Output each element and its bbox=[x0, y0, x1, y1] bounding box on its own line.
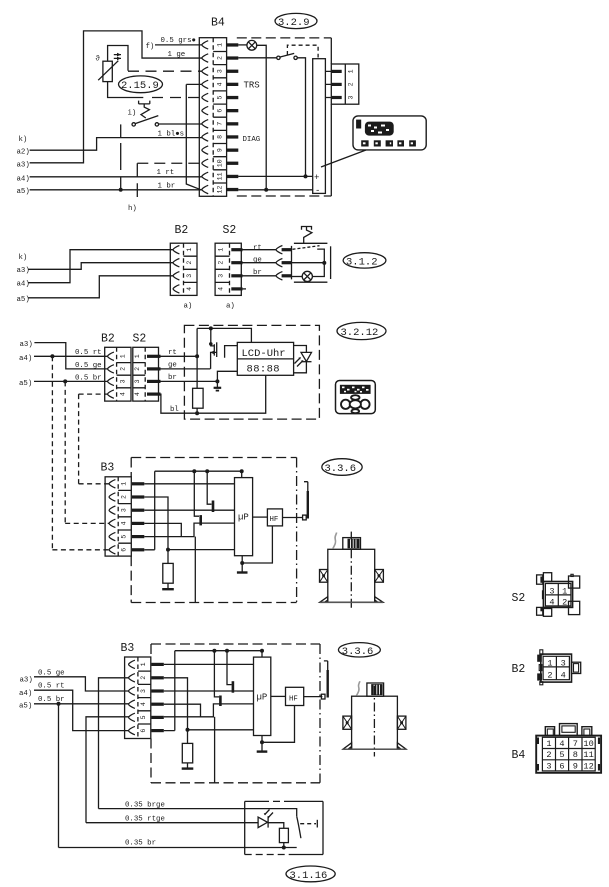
S2 connector body bbox=[215, 243, 241, 295]
B4 connector body bbox=[199, 38, 226, 197]
svg-text:a3): a3) bbox=[17, 267, 30, 275]
svg-text:k): k) bbox=[19, 254, 28, 262]
B4 pin numbers 1-12 bbox=[217, 43, 224, 194]
svg-text:a3): a3) bbox=[20, 676, 33, 684]
B3 connector body bbox=[125, 657, 151, 739]
B2 numbers bbox=[186, 248, 193, 291]
svg-text:1: 1 bbox=[218, 248, 225, 252]
svg-text:0.5 grs●: 0.5 grs● bbox=[161, 37, 196, 45]
svg-text:B3: B3 bbox=[101, 462, 115, 475]
svg-text:i): i) bbox=[128, 110, 137, 118]
HF module 2 bbox=[286, 687, 304, 705]
antenna 2 bbox=[327, 670, 329, 698]
svg-text:rt: rt bbox=[253, 245, 262, 253]
transistor Q (FET) bbox=[211, 328, 215, 346]
svg-text:4: 4 bbox=[140, 702, 147, 706]
receiver dashed box 2 bbox=[150, 644, 152, 783]
svg-text:HF: HF bbox=[270, 516, 279, 524]
S2 male pins bbox=[147, 355, 161, 396]
thermistor R (NTC) bbox=[103, 61, 112, 81]
svg-text:1: 1 bbox=[348, 69, 355, 73]
svg-text:a): a) bbox=[184, 303, 193, 311]
svg-text:a5): a5) bbox=[17, 296, 30, 304]
wire dashed to pin 5 bbox=[152, 97, 202, 99]
wire a3 to B2.2 bbox=[28, 263, 173, 270]
lamp unit box bbox=[245, 801, 323, 854]
svg-text:9: 9 bbox=[217, 148, 224, 152]
B2 connector body bbox=[105, 347, 131, 401]
svg-text:9: 9 bbox=[573, 761, 578, 771]
svg-text:2: 2 bbox=[547, 671, 552, 681]
thermistor top lead to pin 3 node bbox=[108, 46, 128, 71]
dashed wire to B3.1 bbox=[79, 483, 110, 485]
svg-text:0.5 ge: 0.5 ge bbox=[38, 669, 65, 677]
svg-text:B4: B4 bbox=[512, 749, 526, 762]
svg-text:S2: S2 bbox=[512, 592, 526, 605]
svg-text:6: 6 bbox=[559, 761, 564, 771]
svg-text:3: 3 bbox=[546, 761, 551, 771]
svg-text:0.35 rtge: 0.35 rtge bbox=[125, 815, 165, 823]
S2 male pins bbox=[231, 248, 242, 290]
B3 connector body bbox=[105, 477, 131, 556]
svg-text:0.35 br: 0.35 br bbox=[125, 840, 156, 848]
svg-text:B2: B2 bbox=[101, 333, 115, 346]
B3 numbers bbox=[140, 662, 147, 732]
B2 socket contacts bbox=[173, 246, 179, 254]
LCD-Uhr box bbox=[237, 342, 293, 375]
S2 connector face bbox=[537, 573, 580, 617]
wire rt to clock bbox=[158, 355, 197, 357]
svg-text:2: 2 bbox=[121, 495, 128, 499]
receiver dashed box bbox=[130, 458, 132, 603]
switch unit thick lead stubs bbox=[282, 248, 292, 277]
svg-text:2: 2 bbox=[217, 56, 224, 60]
dashed riser bl to section4 bbox=[78, 394, 80, 484]
LED loop wiring bbox=[294, 346, 307, 373]
reference oval 3.1.16 bbox=[286, 866, 335, 882]
B2 connector body bbox=[170, 243, 197, 295]
gate hook wire bbox=[225, 346, 238, 358]
S2 numbers bbox=[218, 248, 225, 291]
svg-text:1: 1 bbox=[140, 662, 147, 666]
wire 0.35 rtge to LED bbox=[86, 822, 258, 824]
wire br S2.3 to switch unit bbox=[243, 275, 277, 277]
svg-text:4: 4 bbox=[549, 598, 554, 608]
dashed vertical to a5 wire bbox=[120, 143, 122, 190]
svg-text:ϑ: ϑ bbox=[96, 56, 101, 64]
ground 2 bbox=[182, 767, 194, 769]
wire br to clock bbox=[158, 380, 217, 382]
svg-text:3: 3 bbox=[140, 689, 147, 693]
junction dot on ge row bbox=[292, 262, 325, 264]
resistor R in clock bbox=[193, 388, 204, 408]
svg-text:11: 11 bbox=[583, 750, 593, 760]
riser brge to B3.2 bbox=[99, 678, 130, 809]
svg-text:a5): a5) bbox=[19, 380, 32, 388]
svg-text:DIAG: DIAG bbox=[243, 136, 261, 144]
wire row6 to rail 2 bbox=[164, 651, 175, 731]
light arrows bbox=[295, 358, 303, 367]
wire row1 to uP bbox=[144, 483, 234, 485]
svg-text:2: 2 bbox=[140, 676, 147, 680]
svg-text:6: 6 bbox=[121, 548, 128, 552]
svg-text:1 ge: 1 ge bbox=[168, 51, 186, 59]
svg-text:br: br bbox=[168, 374, 177, 382]
svg-text:a4): a4) bbox=[19, 355, 32, 363]
clock dashed box bbox=[184, 325, 319, 419]
svg-text:2: 2 bbox=[120, 367, 127, 371]
svg-text:2.15.9: 2.15.9 bbox=[121, 80, 159, 92]
wire ge to clock bbox=[158, 368, 210, 370]
svg-text:1: 1 bbox=[546, 739, 551, 749]
HF ground path 2 bbox=[262, 706, 295, 751]
lamp in switch unit bbox=[292, 276, 303, 278]
dashed riser a4 to section4 bbox=[51, 356, 53, 550]
left harness labels bbox=[19, 341, 33, 388]
svg-text:12: 12 bbox=[583, 761, 593, 771]
svg-text:B3: B3 bbox=[121, 642, 135, 655]
svg-text:k): k) bbox=[19, 136, 28, 144]
switch unit socket contacts bbox=[276, 246, 282, 254]
wire a5 to B2.3 (0.5 br) bbox=[34, 380, 108, 382]
S2 connector body bbox=[133, 347, 159, 401]
B2 connector face bbox=[539, 650, 581, 685]
B3 numbers bbox=[121, 482, 128, 552]
svg-text:µP: µP bbox=[257, 693, 268, 703]
dashed actuator link bbox=[300, 823, 316, 825]
svg-text:B2: B2 bbox=[512, 663, 526, 676]
svg-text:11: 11 bbox=[217, 172, 224, 180]
svg-text:1: 1 bbox=[186, 248, 193, 252]
wire a5 to pin 12 (1 br) bbox=[30, 189, 202, 191]
B3 socket contacts bbox=[129, 660, 135, 668]
B3 socket contacts bbox=[109, 480, 115, 488]
svg-text:S2: S2 bbox=[133, 333, 147, 346]
wire rt S2.1 to switch unit bbox=[243, 249, 277, 251]
wire a4 to B2.1 bbox=[28, 250, 173, 283]
svg-text:rt: rt bbox=[168, 349, 177, 357]
svg-text:6: 6 bbox=[140, 729, 147, 733]
svg-text:4: 4 bbox=[121, 521, 128, 525]
svg-text:4: 4 bbox=[559, 739, 564, 749]
wire switch to node row11 bbox=[297, 58, 305, 177]
antenna module icon 2 bbox=[343, 681, 406, 756]
device dashed box (radio unit) bbox=[237, 37, 331, 39]
svg-text:1: 1 bbox=[120, 354, 127, 358]
svg-text:3.2.12: 3.2.12 bbox=[341, 327, 379, 339]
svg-text:a): a) bbox=[226, 303, 235, 311]
svg-text:2: 2 bbox=[348, 82, 355, 86]
svg-text:1: 1 bbox=[562, 587, 567, 597]
wire to box bottom 2 bbox=[214, 717, 216, 783]
svg-text:3: 3 bbox=[120, 379, 127, 383]
wire a3 to B2.2 bbox=[34, 343, 107, 369]
pointer line to radio icon bbox=[321, 150, 366, 167]
ground under uP bbox=[237, 571, 248, 573]
wire ge S2.2 to switch unit bbox=[243, 262, 277, 264]
LED D with resistor bbox=[258, 817, 267, 828]
latch spring symbol bbox=[302, 227, 312, 244]
svg-text:0.5 rt: 0.5 rt bbox=[75, 349, 102, 357]
svg-text:a4): a4) bbox=[17, 281, 30, 289]
supply rail bbox=[155, 470, 242, 472]
svg-text:B4: B4 bbox=[211, 17, 225, 30]
junction dot on br wire bbox=[282, 846, 286, 850]
clock control icon bbox=[336, 381, 376, 414]
svg-text:+: + bbox=[314, 173, 319, 183]
ground in clock bbox=[214, 387, 222, 389]
svg-text:3: 3 bbox=[121, 508, 128, 512]
wire lamp to node row12 bbox=[257, 45, 267, 190]
supply node rt riser bbox=[195, 354, 199, 358]
3-pin connector pins bbox=[331, 70, 341, 99]
riser br down to section6 bbox=[58, 704, 60, 848]
svg-text:HF: HF bbox=[289, 695, 298, 703]
dashed wire to B3.6 bbox=[52, 549, 109, 551]
wire a5 to B2.3 bbox=[28, 276, 173, 298]
svg-text:4: 4 bbox=[134, 392, 141, 396]
HF ground path via uP bottom bbox=[242, 526, 272, 572]
svg-text:3: 3 bbox=[549, 587, 554, 597]
top feed wire bbox=[197, 328, 251, 342]
wire a3 loop to pin 2 (1 ge) bbox=[30, 31, 202, 163]
switch contact path bbox=[312, 249, 324, 276]
wire row5 to uP bbox=[144, 523, 234, 537]
dashed riser a5 to section4 bbox=[64, 381, 66, 523]
B3 male pins bbox=[132, 482, 144, 551]
wire row1 to uP 2 bbox=[164, 663, 254, 665]
svg-text:5: 5 bbox=[140, 715, 147, 719]
reference oval 3.3.6 bbox=[322, 459, 362, 476]
junction on a5 wire bbox=[119, 188, 123, 192]
ground bbox=[162, 588, 174, 590]
reference oval 3.2.9 bbox=[275, 13, 317, 28]
svg-text:1: 1 bbox=[217, 43, 224, 47]
svg-text:µP: µP bbox=[238, 513, 249, 523]
wire uP to HF bbox=[253, 516, 268, 518]
resistor R 2 bbox=[187, 730, 189, 744]
svg-text:a4): a4) bbox=[17, 175, 30, 183]
svg-text:1: 1 bbox=[547, 659, 552, 669]
svg-text:3: 3 bbox=[218, 274, 225, 278]
B3 male pins bbox=[152, 663, 164, 732]
wire pin12 row to battery minus bbox=[238, 189, 313, 191]
3-pin connector body bbox=[331, 64, 359, 104]
svg-text:12: 12 bbox=[217, 186, 224, 194]
wire 0.5 grs to pin 1 bbox=[155, 44, 202, 46]
svg-text:1: 1 bbox=[134, 354, 141, 358]
wire a4 to B2.1 (0.5 rt) bbox=[34, 355, 108, 357]
svg-text:6: 6 bbox=[217, 109, 224, 113]
wire 0.35 br bbox=[59, 847, 297, 849]
wire row6 to rail bbox=[144, 471, 154, 550]
wire a4 to pin 11 (1 rt) bbox=[30, 176, 202, 178]
capacitor C2 bbox=[194, 471, 199, 516]
B2 socket contacts bbox=[108, 352, 114, 360]
svg-text:3: 3 bbox=[348, 95, 355, 99]
wire uP to HF 2 bbox=[271, 695, 286, 697]
riser rtge to B3.5 bbox=[86, 717, 129, 823]
wire dashed to pin 3 bbox=[128, 70, 202, 72]
battery / amplifier block with + - bbox=[313, 59, 326, 194]
dashed actuator linkage bbox=[287, 45, 318, 57]
capacitor C1 bbox=[207, 471, 211, 504]
wire a3 to B3.3 (0.5 ge) bbox=[34, 677, 129, 691]
junction dot on bl wire bbox=[195, 411, 199, 415]
switch S in device pin2 bbox=[238, 57, 277, 59]
svg-text:0.5 rt: 0.5 rt bbox=[38, 683, 65, 691]
svg-text:ge: ge bbox=[253, 257, 262, 265]
svg-text:88:88: 88:88 bbox=[247, 364, 281, 376]
svg-text:2: 2 bbox=[546, 750, 551, 760]
microprocessor uP bbox=[235, 478, 253, 556]
left harness labels bbox=[17, 136, 30, 196]
display ground branch bbox=[217, 371, 237, 387]
left harness labels bbox=[19, 676, 33, 710]
wire switch to pin 7 bbox=[159, 123, 202, 125]
wire pin4 riser with diagonal to pin 12 bbox=[186, 84, 202, 189]
svg-text:h): h) bbox=[128, 205, 137, 213]
B4 connector face bbox=[536, 724, 601, 773]
resistor R bbox=[167, 550, 169, 564]
svg-text:1 br: 1 br bbox=[158, 183, 176, 191]
h) dashed drop wire bbox=[136, 163, 138, 197]
svg-text:a4): a4) bbox=[19, 690, 32, 698]
wire row2 to resistor node 2 bbox=[164, 678, 254, 730]
svg-text:3: 3 bbox=[134, 379, 141, 383]
svg-text:3: 3 bbox=[217, 69, 224, 73]
svg-text:a5): a5) bbox=[17, 188, 30, 196]
svg-text:7: 7 bbox=[573, 739, 578, 749]
resistor R bbox=[279, 828, 288, 842]
S2 pin4 stub bbox=[243, 288, 247, 290]
svg-text:B2: B2 bbox=[175, 224, 189, 237]
svg-text:2: 2 bbox=[218, 261, 225, 265]
antenna lead 2 bbox=[304, 696, 323, 698]
light arrows into LED bbox=[265, 810, 274, 818]
svg-text:0.5 br: 0.5 br bbox=[75, 375, 102, 383]
svg-text:10: 10 bbox=[217, 159, 224, 167]
wire bl S2.4 routing bbox=[158, 375, 266, 413]
B4 pin cell separators bbox=[213, 52, 226, 184]
svg-text:1: 1 bbox=[121, 482, 128, 486]
svg-text:a3): a3) bbox=[17, 162, 30, 170]
dashed wire to B3.4 bbox=[65, 522, 109, 524]
antenna module icon bbox=[320, 532, 384, 609]
svg-text:4: 4 bbox=[217, 82, 224, 86]
wire pin11 row to battery plus bbox=[238, 175, 313, 177]
supply rail 2 bbox=[175, 650, 262, 652]
wire dashed to pin 10 bbox=[137, 162, 202, 164]
svg-text:2: 2 bbox=[562, 598, 567, 608]
switch unit frame bbox=[292, 243, 328, 282]
B2 numbers bbox=[120, 354, 127, 396]
dashed wire to B2.4 bbox=[79, 393, 108, 395]
svg-text:2: 2 bbox=[134, 367, 141, 371]
svg-text:a3): a3) bbox=[20, 341, 33, 349]
svg-text:3.3.6: 3.3.6 bbox=[342, 646, 374, 658]
svg-text:TRS: TRS bbox=[244, 80, 260, 90]
svg-text:1 bl●s: 1 bl●s bbox=[158, 130, 185, 138]
thermistor bottom lead bbox=[108, 82, 144, 98]
3-pin connector numbers bbox=[348, 69, 355, 99]
reference oval 2.15.9 bbox=[119, 76, 163, 93]
svg-text:3.3.6: 3.3.6 bbox=[325, 463, 357, 475]
reference oval 3.2.12 bbox=[337, 322, 386, 339]
S2 numbers bbox=[134, 354, 141, 396]
antenna bbox=[307, 491, 309, 519]
wire 0.35 brge bbox=[99, 809, 297, 817]
capacitor C2-2 bbox=[214, 651, 219, 697]
B4 socket contacts pins 1-12 bbox=[202, 41, 208, 194]
junction dot bbox=[304, 174, 308, 178]
wire row5 to uP 2 bbox=[164, 704, 254, 717]
svg-text:0.5 br: 0.5 br bbox=[38, 696, 65, 704]
svg-text:br: br bbox=[253, 269, 262, 277]
wire row4 branch bbox=[144, 523, 181, 536]
svg-text:LCD-Uhr: LCD-Uhr bbox=[242, 348, 286, 360]
wire row3 to uP 2 bbox=[164, 690, 254, 692]
svg-text:3.1.2: 3.1.2 bbox=[346, 256, 378, 268]
microprocessor uP 2 bbox=[254, 657, 271, 735]
reference oval 3.1.2 bbox=[343, 253, 386, 268]
B4 male pin bars 1-12 bbox=[227, 43, 238, 191]
svg-text:5: 5 bbox=[217, 95, 224, 99]
svg-text:5: 5 bbox=[559, 750, 564, 760]
svg-text:10: 10 bbox=[583, 739, 593, 749]
radio head unit icon bbox=[353, 116, 426, 150]
wire a4 to B3.6 (0.5 rt) bbox=[34, 690, 129, 730]
actuator bar bbox=[316, 820, 318, 828]
antenna lead bbox=[283, 517, 304, 519]
svg-text:0.35 brge: 0.35 brge bbox=[125, 801, 165, 809]
left harness labels bbox=[17, 254, 30, 304]
svg-text:bl: bl bbox=[170, 406, 179, 414]
svg-text:8: 8 bbox=[217, 135, 224, 139]
svg-text:3.2.9: 3.2.9 bbox=[278, 17, 310, 29]
wire a2 to pin 8 (1 bl s) bbox=[30, 138, 202, 151]
ground under uP 2 bbox=[257, 750, 268, 752]
3-pin output connector stubs bbox=[325, 71, 331, 97]
svg-text:-: - bbox=[315, 186, 320, 196]
svg-text:a2): a2) bbox=[17, 149, 30, 157]
wire a5 to B3.4 (0.5 br) bbox=[34, 703, 129, 705]
push surface bar bbox=[330, 246, 332, 279]
svg-text:2: 2 bbox=[186, 261, 193, 265]
svg-text:4: 4 bbox=[120, 392, 127, 396]
wire switch branch to a2 wire bbox=[120, 124, 122, 137]
svg-text:4: 4 bbox=[561, 671, 566, 681]
HF module bbox=[267, 509, 282, 526]
junction dot bbox=[264, 188, 268, 192]
svg-text:1 rt: 1 rt bbox=[157, 169, 175, 177]
capacitor C1-2 bbox=[227, 651, 232, 685]
wire to box bottom bbox=[194, 537, 196, 603]
svg-text:5: 5 bbox=[121, 535, 128, 539]
svg-text:f): f) bbox=[146, 43, 155, 51]
lamp L1 in device bbox=[238, 44, 247, 46]
photo diode D bbox=[301, 352, 312, 361]
svg-text:3: 3 bbox=[561, 659, 566, 669]
wire row3 to uP bbox=[144, 509, 234, 511]
svg-text:4: 4 bbox=[186, 287, 193, 291]
wire row2 to resistor node bbox=[144, 497, 234, 550]
wire row4 branch 2 bbox=[164, 704, 201, 717]
svg-text:3: 3 bbox=[186, 274, 193, 278]
switch blade dashed bbox=[293, 246, 320, 250]
svg-text:4: 4 bbox=[218, 287, 225, 291]
svg-text:a5): a5) bbox=[19, 702, 32, 710]
